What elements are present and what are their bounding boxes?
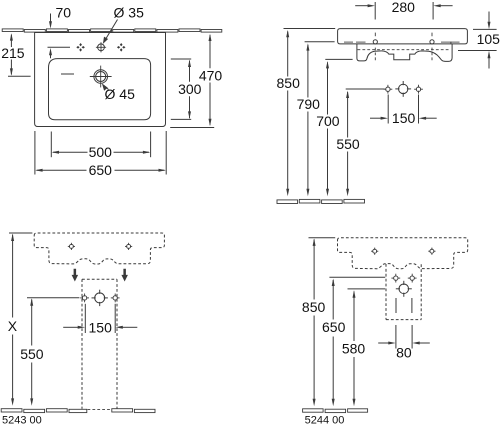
rim soap deck marks (grey) — [344, 41, 353, 43]
svg-text:215: 215 — [1, 45, 25, 61]
overflow slot mark inside bowl — [61, 73, 74, 75]
svg-text:X: X — [8, 318, 18, 334]
svg-text:150: 150 — [89, 320, 113, 336]
svg-text:850: 850 — [302, 299, 326, 315]
dashed basin silhouette 5243 — [34, 233, 164, 264]
svg-text:850: 850 — [277, 75, 301, 91]
dimension 470 lower extension line — [170, 127, 214, 129]
svg-text:105: 105 — [477, 31, 500, 47]
svg-text:280: 280 — [392, 0, 416, 15]
svg-text:470: 470 — [199, 67, 223, 83]
dimension 280 arrows — [355, 5, 368, 7]
dimension 300 extension lines — [171, 58, 191, 60]
svg-text:580: 580 — [342, 340, 366, 356]
semi-pedestal fixing holes 5244 — [395, 274, 397, 277]
svg-text:Ø 35: Ø 35 — [114, 5, 145, 21]
bold down arrow right 5243 — [121, 269, 128, 282]
dimension 550 5243 — [27, 297, 79, 299]
dimension 150 5243 — [84, 304, 86, 333]
front view basin rim — [338, 29, 468, 44]
svg-text:550: 550 — [20, 346, 44, 362]
drain hole Ø45 with crosshair — [100, 66, 102, 88]
dimension 470 vertical — [209, 35, 211, 68]
tap hole centre reference line — [48, 46, 71, 48]
floor hatch 5243 — [1, 409, 155, 413]
dimension 70 arrow above — [50, 14, 52, 23]
svg-text:Ø 45: Ø 45 — [105, 86, 136, 102]
hidden edge dashed line under rim — [358, 49, 450, 51]
wall mounting holes: right small hole — [418, 85, 420, 88]
dimension 850 front view — [284, 28, 336, 30]
dimension 650 5244 — [329, 276, 385, 278]
dimension 500 horizontal — [50, 132, 52, 158]
dimension 105 arrows — [488, 12, 490, 23]
plan view inner bowl outline — [49, 59, 151, 120]
bold down arrow left 5243 — [72, 269, 79, 282]
svg-text:500: 500 — [89, 144, 113, 160]
drain slots 5244 — [395, 298, 397, 313]
basin underside outline with legs and trap — [357, 44, 452, 61]
svg-text:700: 700 — [316, 113, 340, 129]
wall mounting centre hole — [402, 81, 404, 85]
dimension 80 5244 — [395, 325, 397, 349]
pedestal mounting holes 5243 — [84, 294, 86, 297]
semi-pedestal dashed outline 5244 — [385, 264, 387, 320]
rim fixing hole left with tick — [374, 33, 376, 37]
dimension 790 front view — [305, 41, 335, 43]
wall mounting holes: left small hole — [387, 85, 389, 88]
dimension 550 front view — [346, 88, 385, 90]
svg-text:650: 650 — [89, 162, 113, 178]
silhouette fixing hole right 5244 — [431, 248, 433, 250]
semi-pedestal drain hole 5244 — [403, 281, 405, 285]
svg-text:70: 70 — [56, 5, 72, 21]
dimension 580 5244 — [348, 288, 386, 290]
floor hidden dashes under pedestal — [88, 408, 111, 410]
dimension 105 extension lines — [473, 28, 497, 30]
dimension 150 front view — [387, 95, 389, 124]
front view dimension 280 extension lines — [374, 2, 376, 20]
alternative tap hole marker right — [120, 43, 123, 46]
rim fixing hole right with tick — [431, 33, 433, 37]
dimension 70 lower arrow — [49, 48, 52, 55]
floor hatch 5244 — [303, 409, 368, 413]
mounting bracket edge tick — [450, 42, 452, 44]
dimension 700 front view — [325, 58, 352, 60]
silhouette fixing hole left 5243 — [70, 243, 72, 245]
silhouette fixing hole right 5243 — [128, 243, 130, 245]
tap hole Ø35 with crosshair — [100, 42, 102, 52]
plan view basin outer rim outline — [35, 33, 166, 127]
pedestal dashed outline 5243 — [82, 278, 117, 280]
svg-text:550: 550 — [336, 136, 360, 152]
dimension 300 vertical — [189, 61, 191, 82]
svg-text:300: 300 — [178, 81, 202, 97]
silhouette fixing hole left 5244 — [374, 248, 376, 250]
front view floor hatch — [277, 199, 365, 203]
dimension 650 horizontal — [34, 131, 36, 175]
hidden fixing hole lines dashed — [374, 48, 376, 61]
svg-text:790: 790 — [297, 96, 321, 112]
svg-text:5243 00: 5243 00 — [2, 415, 42, 425]
svg-text:80: 80 — [396, 345, 412, 361]
dimension 850 5244 — [309, 237, 336, 239]
dimension 215 vertical — [10, 35, 12, 47]
top-left plan view: wall hatch — [2, 29, 222, 32]
svg-text:5244 00: 5244 00 — [305, 415, 345, 425]
svg-text:650: 650 — [322, 319, 346, 335]
alternative tap hole marker left — [79, 43, 82, 46]
dashed basin silhouette 5244 — [338, 238, 468, 269]
dimension 215 lower extension line — [8, 75, 31, 77]
dimension X vertical 5243 — [9, 232, 32, 234]
svg-text:150: 150 — [392, 110, 416, 126]
